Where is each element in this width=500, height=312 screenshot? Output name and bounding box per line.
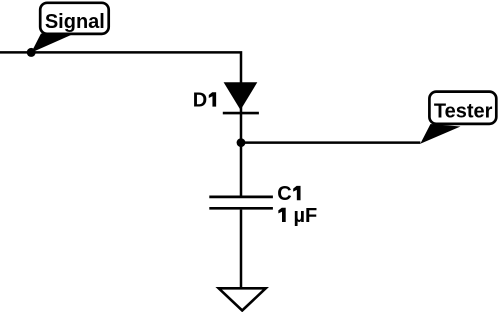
svg-text:µF: µF	[294, 205, 318, 227]
svg-text:D: D	[193, 90, 207, 112]
svg-text:Tester: Tester	[434, 101, 493, 123]
svg-text:Signal: Signal	[45, 11, 105, 33]
svg-text:C: C	[277, 183, 291, 205]
